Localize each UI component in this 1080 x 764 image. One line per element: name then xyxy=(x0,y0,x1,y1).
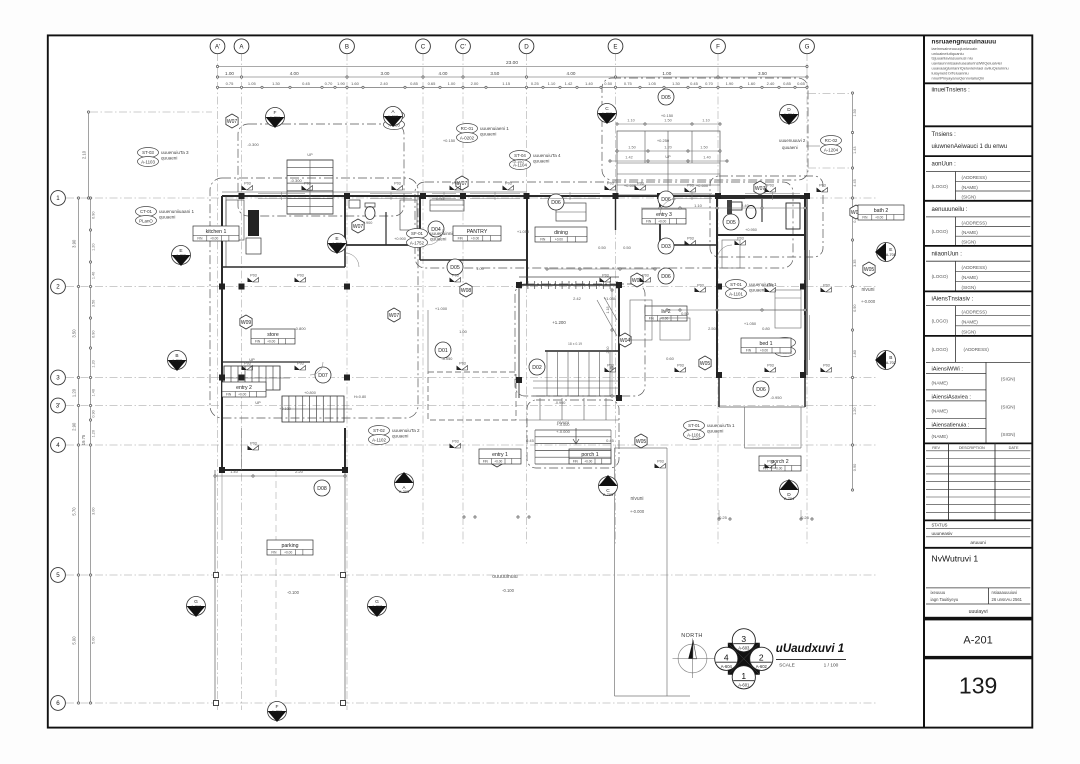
plan title text xyxy=(776,643,846,669)
svg-text:P03: P03 xyxy=(687,183,693,187)
svg-text:iAiensTnsiasiv :: iAiensTnsiasiv : xyxy=(932,297,974,303)
svg-text:1.50: 1.50 xyxy=(853,109,857,116)
svg-text:X-706: X-706 xyxy=(270,116,280,120)
svg-text:A-705: A-705 xyxy=(332,242,342,246)
svg-text:E: E xyxy=(335,236,338,242)
svg-text:0.45: 0.45 xyxy=(690,81,699,86)
title block structural engineer section xyxy=(924,291,1032,336)
svg-text:1.90: 1.90 xyxy=(337,81,346,86)
svg-text:0.90: 0.90 xyxy=(853,464,857,471)
window mullion lines top wall xyxy=(258,192,800,200)
living room centre balustrade xyxy=(519,277,619,398)
svg-text:A-703: A-703 xyxy=(603,493,613,497)
title block drawing name xyxy=(924,548,1032,564)
svg-text:uuuenuiuTa 1: uuuenuiuTa 1 xyxy=(707,423,735,428)
interior small dims and texts xyxy=(247,138,809,520)
svg-text:G: G xyxy=(805,44,810,51)
svg-text:W07: W07 xyxy=(227,119,238,125)
leader callouts ellipse pairs xyxy=(136,111,842,445)
interior dim chain center xyxy=(546,207,806,311)
svg-text:DATE: DATE xyxy=(1009,446,1019,450)
svg-text:0.75: 0.75 xyxy=(624,81,633,86)
svg-text:P03: P03 xyxy=(823,363,829,367)
left wing kitchen walls xyxy=(222,196,345,470)
small flag markers xyxy=(242,181,832,468)
right dimension chain xyxy=(851,92,856,491)
title block logo address row xyxy=(924,336,1032,363)
grand stair centre xyxy=(533,297,619,405)
svg-text:uuuiayvi: uuuiayvi xyxy=(969,609,988,615)
svg-text:A-1103: A-1103 xyxy=(141,159,155,164)
svg-text:0.45: 0.45 xyxy=(302,81,311,86)
row grid bubble 1 xyxy=(51,191,66,206)
row grid bubble 2 xyxy=(51,279,66,294)
svg-text:0.90: 0.90 xyxy=(92,410,96,417)
svg-text:A-707: A-707 xyxy=(372,605,382,609)
svg-text:+0.950: +0.950 xyxy=(745,228,757,232)
svg-text:+1.200: +1.200 xyxy=(552,320,566,325)
svg-text:ST-04: ST-04 xyxy=(514,153,526,158)
svg-text:PLanO: PLanO xyxy=(139,218,153,223)
left dimension chain inner xyxy=(89,197,95,704)
roof outline dashed center terrace xyxy=(415,182,793,396)
svg-text:(NAME): (NAME) xyxy=(962,185,979,190)
svg-text:uuuenuiuTa 3: uuuenuiuTa 3 xyxy=(161,150,189,155)
column grid lines xyxy=(218,53,808,710)
svg-text:X-706: X-706 xyxy=(272,710,282,714)
svg-text:1.20: 1.20 xyxy=(92,244,96,251)
svg-text:P03: P03 xyxy=(767,459,773,463)
svg-text:uiuwnenAeiwauci 1 du enwu: uiuwnenAeiwauci 1 du enwu xyxy=(932,144,1008,150)
svg-text:0.90: 0.90 xyxy=(853,305,857,312)
svg-text:+0.250: +0.250 xyxy=(657,138,670,143)
svg-text:(NAME): (NAME) xyxy=(932,380,949,385)
leader text RC-02 xyxy=(779,138,820,150)
svg-text:1.20: 1.20 xyxy=(72,388,77,397)
svg-text:0.70: 0.70 xyxy=(325,81,334,86)
svg-text:iAiensiWWi :: iAiensiWWi : xyxy=(932,366,964,372)
svg-text:0.85: 0.85 xyxy=(783,81,792,86)
svg-text:P03: P03 xyxy=(677,363,683,367)
svg-text:1.10: 1.10 xyxy=(548,81,557,86)
svg-text:P03: P03 xyxy=(250,273,256,277)
window mullion lines right wall xyxy=(805,250,810,360)
svg-text:1.60: 1.60 xyxy=(748,81,757,86)
top dimension chain minor xyxy=(216,81,808,88)
svg-text:0.80: 0.80 xyxy=(762,326,771,331)
svg-text:uuuenuniiuaani 1: uuuenuniiuaani 1 xyxy=(159,209,194,214)
svg-text:+0.600: +0.600 xyxy=(696,183,709,188)
svg-text:4.45: 4.45 xyxy=(853,179,857,186)
svg-text:-0.300: -0.300 xyxy=(247,142,259,147)
svg-text:dining: dining xyxy=(554,230,568,236)
svg-text:W05: W05 xyxy=(700,361,711,367)
column grid bubble E xyxy=(608,39,623,54)
svg-text:FIN: FIN xyxy=(573,460,579,464)
svg-text:+0.00: +0.00 xyxy=(494,460,502,464)
svg-text:0.50: 0.50 xyxy=(598,245,607,250)
svg-text:D07: D07 xyxy=(318,373,328,379)
svg-text:iinueiTnsiens :: iinueiTnsiens : xyxy=(932,88,971,94)
svg-text:(NAME): (NAME) xyxy=(962,320,979,325)
svg-text:3.50: 3.50 xyxy=(92,300,96,307)
title block project section xyxy=(924,126,1032,150)
column grid bubble C xyxy=(416,39,431,54)
window tags hexagons xyxy=(226,114,875,467)
svg-text:X-303: X-303 xyxy=(399,490,409,494)
svg-text:W07: W07 xyxy=(755,186,766,192)
svg-text:P03: P03 xyxy=(657,459,663,463)
svg-text:UP: UP xyxy=(307,153,313,157)
column grid bubble C' xyxy=(456,39,471,54)
svg-text:1.20: 1.20 xyxy=(853,408,857,415)
svg-text:1.00: 1.00 xyxy=(662,71,671,76)
svg-text:6: 6 xyxy=(56,700,60,707)
svg-text:kitchen 1: kitchen 1 xyxy=(206,229,227,235)
svg-text:+0.100: +0.100 xyxy=(279,407,291,411)
svg-text:1.40: 1.40 xyxy=(92,272,96,279)
storage room walls xyxy=(222,362,345,470)
title block owner section xyxy=(924,83,1032,93)
svg-text:+0.150: +0.150 xyxy=(443,138,456,143)
svg-text:1.20: 1.20 xyxy=(92,360,96,367)
svg-text:(SIGN): (SIGN) xyxy=(962,195,977,200)
svg-text:FIN: FIN xyxy=(646,220,652,224)
svg-text:5.00: 5.00 xyxy=(92,637,96,644)
svg-text:(ADDRESS): (ADDRESS) xyxy=(962,310,988,315)
svg-text:PANTRY: PANTRY xyxy=(467,229,488,235)
title block notes section xyxy=(932,39,1009,81)
svg-text:P03: P03 xyxy=(697,283,703,287)
svg-text:nivuni: nivuni xyxy=(630,496,643,502)
svg-text:FIN: FIN xyxy=(540,238,546,242)
svg-text:1.18: 1.18 xyxy=(606,307,610,314)
svg-text:+1.050: +1.050 xyxy=(517,229,530,234)
svg-text:niiaonUun :: niiaonUun : xyxy=(932,251,963,257)
svg-text:P03: P03 xyxy=(250,441,256,445)
svg-text:+0.00: +0.00 xyxy=(555,238,563,242)
svg-text:0.85: 0.85 xyxy=(410,81,419,86)
north compass xyxy=(673,633,716,678)
entry stair bottom centre xyxy=(519,398,619,444)
svg-text:B: B xyxy=(175,353,178,359)
svg-text:P03: P03 xyxy=(459,361,465,365)
svg-text:ixeuuuu: ixeuuuu xyxy=(931,590,946,595)
svg-text:STATUS: STATUS xyxy=(932,523,948,528)
svg-text:2: 2 xyxy=(56,284,60,291)
svg-text:P03: P03 xyxy=(687,236,693,240)
svg-text:18 x 0.19: 18 x 0.19 xyxy=(568,342,582,346)
svg-text:0.50: 0.50 xyxy=(604,81,613,86)
svg-text:nsiaaauuuiuvi: nsiaaauuuiuvi xyxy=(992,590,1018,595)
svg-text:-0.800: -0.800 xyxy=(294,326,306,331)
svg-text:D05: D05 xyxy=(450,265,460,271)
svg-text:uUaudxuvi 1: uUaudxuvi 1 xyxy=(776,643,844,655)
svg-text:+0.00: +0.00 xyxy=(471,237,479,241)
svg-text:4.00: 4.00 xyxy=(439,71,448,76)
svg-text:1.30: 1.30 xyxy=(272,81,281,86)
svg-text:-0.900: -0.900 xyxy=(555,401,566,405)
svg-text:D03: D03 xyxy=(661,244,671,250)
svg-text:uuuenuiuTa 2: uuuenuiuTa 2 xyxy=(392,428,420,433)
column grid bubble F xyxy=(711,39,726,54)
svg-text:0.65: 0.65 xyxy=(428,81,437,86)
svg-text:FIN: FIN xyxy=(271,551,277,555)
svg-text:FIN: FIN xyxy=(197,237,203,241)
svg-text:entry 3: entry 3 xyxy=(656,212,672,218)
svg-text:ST-01: ST-01 xyxy=(730,282,742,287)
row grid bubble 3' xyxy=(51,398,66,413)
title block status section xyxy=(924,520,1032,545)
svg-text:1.10: 1.10 xyxy=(694,203,703,208)
svg-text:E: E xyxy=(613,44,617,51)
svg-text:2.30: 2.30 xyxy=(606,347,610,354)
svg-text:1.10: 1.10 xyxy=(627,119,634,123)
svg-text:2.40: 2.40 xyxy=(380,81,389,86)
svg-text:D05: D05 xyxy=(661,95,671,101)
row grid lines xyxy=(66,198,878,703)
svg-text:0.45: 0.45 xyxy=(606,438,615,443)
title block interior section xyxy=(924,201,1032,246)
svg-text:P03: P03 xyxy=(642,273,648,277)
svg-text:DESCRIPTION: DESCRIPTION xyxy=(959,446,985,450)
left stair lower xyxy=(255,391,366,422)
svg-text:W07: W07 xyxy=(353,224,364,230)
svg-text:+1.050: +1.050 xyxy=(604,296,617,301)
rear entry steps xyxy=(617,113,720,195)
svg-text:2.20: 2.20 xyxy=(295,469,304,474)
title block page number 139 xyxy=(924,656,1032,699)
svg-text:P03: P03 xyxy=(767,183,773,187)
svg-text:(SIGN): (SIGN) xyxy=(1001,432,1016,437)
svg-text:1.00: 1.00 xyxy=(459,329,468,334)
rear porch dimension rows xyxy=(609,119,728,163)
roof outline dashed stair1 bottom xyxy=(527,400,619,468)
svg-text:1.40: 1.40 xyxy=(703,156,710,160)
svg-text:+1.000: +1.000 xyxy=(435,306,448,311)
svg-text:nsruaengnuzuinauuu: nsruaengnuzuinauuu xyxy=(932,39,997,46)
svg-text:-0.100: -0.100 xyxy=(502,588,515,593)
svg-text:1.05: 1.05 xyxy=(248,81,257,86)
svg-text:1.40: 1.40 xyxy=(230,469,239,474)
svg-text:W04: W04 xyxy=(620,338,631,344)
svg-text:NORTH: NORTH xyxy=(681,633,703,639)
svg-text:+0.00: +0.00 xyxy=(238,393,246,397)
svg-text:A-702: A-702 xyxy=(886,361,896,365)
door swing arcs xyxy=(310,199,732,375)
svg-text:(LOGO): (LOGO) xyxy=(932,274,949,279)
svg-text:A-705: A-705 xyxy=(886,253,896,257)
svg-text:(ADDRESS): (ADDRESS) xyxy=(962,265,988,270)
svg-text:F: F xyxy=(716,44,720,51)
svg-text:0.65: 0.65 xyxy=(797,81,806,86)
row grid bubble 5 xyxy=(51,568,66,583)
svg-text:P03: P03 xyxy=(297,361,303,365)
svg-text:2.42: 2.42 xyxy=(573,296,582,301)
title block revision table xyxy=(924,443,1032,520)
svg-text:3.00: 3.00 xyxy=(381,71,390,76)
svg-text:+0.800: +0.800 xyxy=(304,391,316,395)
svg-text:P03: P03 xyxy=(819,183,825,187)
svg-text:3.35: 3.35 xyxy=(853,260,857,267)
svg-text:1.50: 1.50 xyxy=(628,146,635,150)
svg-text:1.00: 1.00 xyxy=(448,81,457,86)
row grid bubble 6 xyxy=(51,696,66,711)
svg-text:ouuuuinuiu: ouuuuinuiu xyxy=(492,574,518,580)
svg-text:-0.950: -0.950 xyxy=(770,395,782,400)
outdoor stair top-left xyxy=(287,153,333,214)
svg-text:+0.150: +0.150 xyxy=(661,113,674,118)
svg-text:0.90: 0.90 xyxy=(92,331,96,338)
bathroom right walls xyxy=(717,198,805,235)
svg-text:P03: P03 xyxy=(637,181,643,185)
svg-text:+0.00: +0.00 xyxy=(658,220,666,224)
svg-text:0.70: 0.70 xyxy=(705,81,714,86)
svg-text:2: 2 xyxy=(759,653,764,663)
svg-text:4: 4 xyxy=(724,653,729,663)
svg-text:uuuenuiuTa 4: uuuenuiuTa 4 xyxy=(533,153,561,158)
svg-text:D08: D08 xyxy=(317,486,327,492)
svg-text:SCALE: SCALE xyxy=(779,663,795,669)
svg-text:W05: W05 xyxy=(636,439,647,445)
svg-text:1.00: 1.00 xyxy=(476,266,485,271)
svg-text:uuuenuuuvi 2: uuuenuuuvi 2 xyxy=(779,138,806,143)
column squares xyxy=(214,193,811,706)
svg-text:A-603: A-603 xyxy=(738,645,750,650)
svg-text:E: E xyxy=(179,248,182,254)
svg-text:3.50: 3.50 xyxy=(72,329,77,338)
svg-text:X-703: X-703 xyxy=(602,112,612,116)
svg-text:3.50: 3.50 xyxy=(758,71,767,76)
svg-text:4.00: 4.00 xyxy=(567,71,576,76)
svg-text:0.90: 0.90 xyxy=(92,212,96,219)
svg-text:FIN: FIN xyxy=(649,317,655,321)
room label boxes xyxy=(193,205,904,555)
svg-text:quuaeni: quuaeni xyxy=(533,158,549,163)
svg-text:+0.900: +0.900 xyxy=(394,237,406,241)
svg-text:1.30: 1.30 xyxy=(672,81,681,86)
svg-text:(SIGN): (SIGN) xyxy=(962,330,977,335)
svg-text:bath 2: bath 2 xyxy=(874,208,889,214)
svg-text:parking: parking xyxy=(281,543,298,549)
front walkway outline xyxy=(615,407,802,696)
svg-text:5: 5 xyxy=(56,572,60,579)
svg-text:(SIGN): (SIGN) xyxy=(1001,376,1016,381)
svg-text:0.45: 0.45 xyxy=(526,438,535,443)
furniture bed1 xyxy=(722,240,801,328)
svg-text:1.90: 1.90 xyxy=(726,81,735,86)
svg-text:4: 4 xyxy=(56,442,60,449)
driveway dimension row xyxy=(214,469,346,477)
svg-text:P03: P03 xyxy=(602,273,608,277)
svg-text:A-702: A-702 xyxy=(172,359,182,363)
bedroom1 porch posts xyxy=(719,375,805,407)
svg-text:G: G xyxy=(194,599,198,605)
svg-text:FIN: FIN xyxy=(862,216,868,220)
svg-text:1.43: 1.43 xyxy=(853,147,857,154)
svg-text:D06: D06 xyxy=(756,387,766,393)
svg-text:3: 3 xyxy=(56,375,60,382)
svg-text:(NAME): (NAME) xyxy=(962,275,979,280)
svg-text:C: C xyxy=(421,44,426,51)
svg-text:2.40: 2.40 xyxy=(767,81,776,86)
svg-text:D05: D05 xyxy=(726,220,736,226)
svg-text:P03: P03 xyxy=(452,181,458,185)
title block landscape section xyxy=(924,246,1032,292)
front road text xyxy=(287,574,518,595)
svg-text:(LOGO): (LOGO) xyxy=(932,347,949,352)
svg-text:1.20: 1.20 xyxy=(664,146,671,150)
svg-text:P03: P03 xyxy=(823,283,829,287)
svg-text:1: 1 xyxy=(56,195,60,202)
svg-text:1 / 100: 1 / 100 xyxy=(824,663,839,669)
svg-text:(ADDRESS): (ADDRESS) xyxy=(964,347,990,352)
svg-text:quuaeni: quuaeni xyxy=(480,131,496,136)
svg-text:FIN: FIN xyxy=(226,393,232,397)
svg-text:P03: P03 xyxy=(452,439,458,443)
svg-text:1.50: 1.50 xyxy=(700,146,707,150)
svg-text:139: 139 xyxy=(959,673,997,699)
svg-text:+1.050: +1.050 xyxy=(744,321,757,326)
svg-text:entry 2: entry 2 xyxy=(236,385,252,391)
bedroom1 walls right wing xyxy=(717,196,807,375)
svg-text:(NAME): (NAME) xyxy=(932,434,949,439)
svg-text:store: store xyxy=(267,332,279,338)
svg-text:+0.00: +0.00 xyxy=(660,317,668,321)
svg-text:D06: D06 xyxy=(551,200,561,206)
svg-text:(NAME): (NAME) xyxy=(962,230,979,235)
svg-text:1.05: 1.05 xyxy=(648,81,657,86)
svg-text:NvWutruvi 1: NvWutruvi 1 xyxy=(932,554,979,564)
svg-text:FIN: FIN xyxy=(746,349,752,353)
svg-text:1.15: 1.15 xyxy=(502,81,511,86)
svg-text:(ADDRESS): (ADDRESS) xyxy=(962,175,988,180)
row grid bubble 3 xyxy=(51,370,66,385)
svg-text:H=0.80: H=0.80 xyxy=(354,395,366,399)
svg-text:FIN: FIN xyxy=(458,237,464,241)
svg-text:5.70: 5.70 xyxy=(72,507,77,516)
door tags circles xyxy=(314,89,769,496)
svg-text:0.25: 0.25 xyxy=(531,81,540,86)
svg-text:0.50: 0.50 xyxy=(681,311,690,316)
svg-text:(LOGO): (LOGO) xyxy=(932,319,949,324)
svg-text:A-1752: A-1752 xyxy=(410,240,425,245)
svg-text:19.75: 19.75 xyxy=(81,434,86,445)
svg-text:5.00: 5.00 xyxy=(72,636,77,645)
svg-text:W05: W05 xyxy=(864,267,875,273)
svg-text:ST-02: ST-02 xyxy=(373,428,385,433)
svg-text:Tnsiens :: Tnsiens : xyxy=(932,132,957,138)
wc walls xyxy=(345,196,420,245)
svg-text:F: F xyxy=(276,704,279,710)
svg-text:entry 1: entry 1 xyxy=(492,452,508,458)
svg-text:D06: D06 xyxy=(661,274,671,280)
svg-text:quuaeni: quuaeni xyxy=(749,287,765,292)
svg-text:0.50: 0.50 xyxy=(623,245,632,250)
upper-left boundary dash line xyxy=(90,93,852,168)
svg-text:W09: W09 xyxy=(241,320,252,326)
svg-text:-0.150: -0.150 xyxy=(512,159,524,164)
svg-text:P03: P03 xyxy=(452,273,458,277)
svg-text:B: B xyxy=(345,44,349,51)
svg-text:2.90: 2.90 xyxy=(72,422,77,431)
svg-text:1.40: 1.40 xyxy=(585,81,594,86)
svg-text:3.00: 3.00 xyxy=(92,508,96,515)
svg-text:aenuuuneilu :: aenuuuneilu : xyxy=(932,207,968,213)
svg-text:D06: D06 xyxy=(661,197,671,203)
svg-text:A-705: A-705 xyxy=(176,254,186,258)
svg-text:P03: P03 xyxy=(767,363,773,367)
